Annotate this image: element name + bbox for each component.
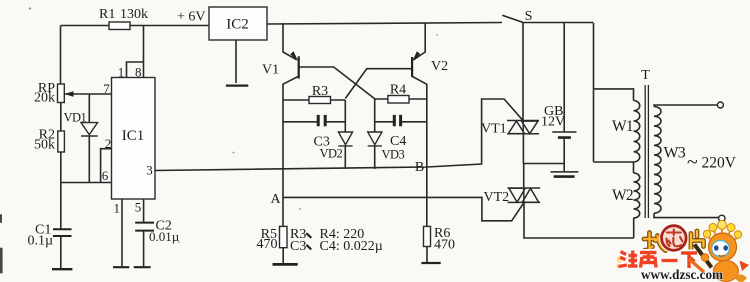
svg-text:A: A — [270, 192, 281, 207]
svg-text:S: S — [525, 9, 533, 24]
svg-text:470: 470 — [434, 238, 455, 253]
svg-text:6: 6 — [102, 168, 109, 183]
svg-text:1: 1 — [114, 201, 121, 216]
svg-text:VD3: VD3 — [382, 148, 405, 162]
svg-text:IC1: IC1 — [122, 128, 145, 144]
svg-text:W1: W1 — [612, 118, 633, 135]
svg-text:470: 470 — [257, 237, 278, 252]
svg-text:7: 7 — [103, 81, 110, 96]
svg-text:20k: 20k — [34, 91, 55, 106]
svg-text:R1: R1 — [99, 7, 115, 22]
svg-text:IC2: IC2 — [226, 17, 249, 33]
svg-text:0.1µ: 0.1µ — [28, 234, 54, 249]
svg-text:~: ~ — [687, 152, 698, 174]
svg-text:5: 5 — [135, 200, 142, 215]
svg-text:220V: 220V — [702, 155, 737, 172]
svg-text:3: 3 — [146, 163, 153, 178]
svg-text:12V: 12V — [541, 115, 565, 130]
svg-text:R3: R3 — [312, 84, 328, 99]
svg-text:C4: 0.022µ: C4: 0.022µ — [320, 239, 383, 254]
svg-text:VT2: VT2 — [484, 190, 510, 205]
svg-text:2: 2 — [105, 136, 112, 151]
svg-text:www.dzsc.com: www.dzsc.com — [641, 267, 723, 282]
svg-text:0.01µ: 0.01µ — [149, 229, 180, 244]
svg-text:VD2: VD2 — [320, 147, 343, 161]
svg-text:+ 6V: + 6V — [177, 10, 206, 25]
svg-text:B: B — [415, 160, 424, 175]
svg-text:1: 1 — [118, 65, 125, 80]
svg-text:50k: 50k — [34, 138, 55, 153]
svg-text:8: 8 — [135, 65, 142, 80]
svg-text:T: T — [641, 68, 650, 83]
svg-text:130k: 130k — [120, 7, 148, 22]
svg-text:W3: W3 — [664, 145, 686, 162]
svg-text:W2: W2 — [612, 187, 633, 204]
svg-text:VT1: VT1 — [481, 122, 507, 137]
svg-text:R4: R4 — [390, 83, 406, 98]
svg-text:C3: C3 — [290, 239, 306, 254]
svg-text:V2: V2 — [431, 59, 448, 74]
svg-text:VD1: VD1 — [64, 111, 87, 125]
svg-text:V1: V1 — [262, 63, 279, 78]
